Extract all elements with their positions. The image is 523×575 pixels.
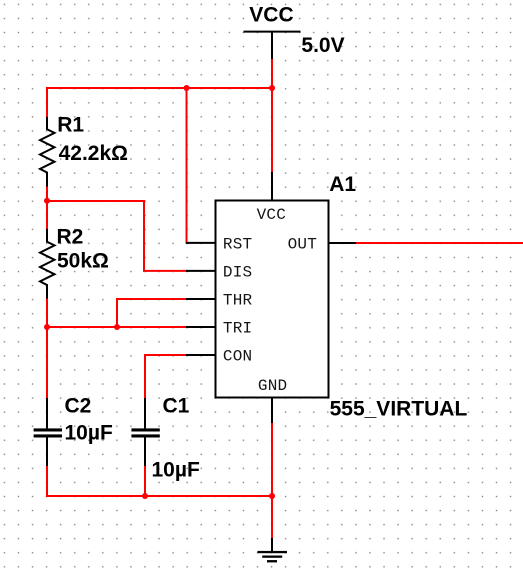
svg-text:R2: R2 [57,226,84,249]
svg-text:A1: A1 [329,173,356,196]
svg-text:THR: THR [223,291,253,309]
svg-text:10µF: 10µF [152,459,200,482]
svg-text:DIS: DIS [223,263,252,281]
svg-text:RST: RST [223,235,252,253]
svg-text:VCC: VCC [249,4,293,27]
svg-text:TRI: TRI [223,320,252,338]
svg-text:50kΩ: 50kΩ [57,250,109,273]
svg-text:42.2kΩ: 42.2kΩ [59,142,128,165]
svg-text:C2: C2 [65,395,92,418]
svg-text:OUT: OUT [288,235,317,253]
svg-text:C1: C1 [163,395,190,418]
svg-text:555_VIRTUAL: 555_VIRTUAL [330,398,468,421]
svg-text:VCC: VCC [257,206,286,224]
svg-text:CON: CON [223,348,252,366]
svg-text:5.0V: 5.0V [301,34,344,57]
svg-text:R1: R1 [57,114,84,137]
svg-text:10µF: 10µF [65,422,113,445]
svg-text:GND: GND [258,377,287,395]
